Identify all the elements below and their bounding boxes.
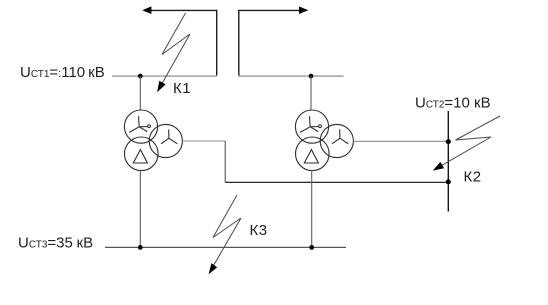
wire: lower connection to 10 kV bus: [225, 181, 448, 183]
wire: top-left feeder loop with left arrow: [142, 6, 217, 75]
winding circle HV: [295, 110, 328, 143]
transformer T1 (three-winding): [124, 110, 182, 171]
fault K3: lightning arrow on 35 kV bus: [209, 195, 241, 274]
winding circle MV: [320, 124, 353, 157]
svg-text:К3: К3: [250, 222, 268, 239]
star symbol with neutral (HV): [300, 116, 318, 132]
node: junction dot MV wires on 10 kV bus: [446, 139, 451, 144]
fault K1: lightning arrow on 110 kV bus: [157, 13, 190, 92]
fault K2: lightning arrow on 10 kV bus: [433, 116, 500, 171]
delta symbol (LV): [304, 150, 318, 163]
wire: T1 HV lead: [139, 76, 141, 110]
bus: 110 kV busbar right section: [239, 75, 344, 77]
svg-text:К1: К1: [173, 80, 191, 97]
bus: 110 kV busbar left section: [112, 75, 217, 77]
svg-text:UСТ2=10 кВ: UСТ2=10 кВ: [415, 94, 491, 111]
svg-text:К2: К2: [464, 168, 482, 185]
node: junction dot T1 on 35 kV bus: [138, 245, 143, 250]
wire: T2 MV lead to 10 kV bus: [353, 140, 448, 142]
wire: top-right feeder loop with right arrow: [239, 6, 308, 75]
node: junction dot on right 110 kV bus: [309, 74, 314, 79]
wire: T2 LV lead: [311, 170, 313, 247]
winding circle LV: [125, 137, 159, 171]
transformer T2 (three-winding): [295, 110, 353, 171]
bus: 35 kV busbar: [105, 246, 346, 248]
star symbol (MV): [161, 129, 177, 143]
wire: T1 MV lead horizontal segment: [182, 140, 225, 142]
wire: T1 MV lead vertical segment: [224, 141, 226, 182]
node: junction dot on left 110 kV bus: [138, 74, 143, 79]
winding circle LV: [296, 137, 330, 171]
wire: T2 HV lead: [310, 76, 312, 110]
node: junction dot lower wire on 10 kV bus: [446, 179, 451, 184]
node: junction dot T2 on 35 kV bus: [309, 245, 314, 250]
star symbol (MV): [332, 129, 348, 143]
winding circle HV: [124, 110, 157, 143]
svg-text:UСТ3=35 кВ: UСТ3=35 кВ: [18, 235, 93, 252]
bus: 10 kV busbar (vertical): [447, 111, 449, 212]
wire: T1 LV lead: [139, 170, 141, 247]
delta symbol (LV): [133, 150, 147, 163]
winding circle MV: [149, 124, 182, 157]
star symbol with neutral (HV): [129, 116, 147, 132]
svg-text:UСТ1=:110 кВ: UСТ1=:110 кВ: [20, 64, 105, 81]
